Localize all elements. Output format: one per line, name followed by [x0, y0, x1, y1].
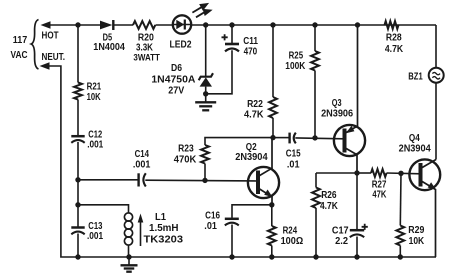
- ground below D6: [195, 102, 216, 110]
- wire C12 node to C14: [78, 179, 138, 181]
- wire LED2 to rail right: [191, 24, 436, 26]
- junction top rail / R21 node: [75, 22, 80, 27]
- resistor R20: [133, 21, 155, 29]
- Q3 base bar: [343, 129, 347, 153]
- Q3 emitter leg: [345, 25, 358, 134]
- svg-text:2N3904: 2N3904: [235, 152, 268, 163]
- Q3 collector leg: [345, 148, 358, 174]
- wire C12 to C13: [77, 142, 79, 228]
- svg-text:100K: 100K: [285, 61, 306, 72]
- junction R25 bottom: [312, 135, 317, 140]
- wire R20 to LED2: [156, 24, 174, 26]
- wire R22 to collector junction: [272, 118, 274, 138]
- svg-text:C16: C16: [205, 210, 220, 221]
- svg-text:R25: R25: [289, 50, 304, 61]
- brace for 117 VAC: [31, 20, 38, 70]
- Q2 base bar: [256, 171, 260, 195]
- Q4 collector leg: [421, 160, 437, 169]
- ground below L1: [121, 265, 138, 271]
- Q4 base bar: [419, 163, 423, 187]
- junction node to L1: [75, 202, 80, 207]
- resistor R26: [312, 188, 320, 209]
- wire R27 to Q4 base: [387, 172, 422, 175]
- transistor Q3 circle: [334, 125, 365, 156]
- junction R26 bottom rail: [313, 254, 318, 259]
- svg-text:1N4004: 1N4004: [93, 42, 125, 53]
- resistor R24: [268, 226, 276, 246]
- wire C11 to D6 node: [206, 50, 232, 94]
- svg-text:47K: 47K: [372, 189, 387, 200]
- LED LED2: [173, 15, 191, 33]
- transistor Q2 circle: [248, 167, 279, 198]
- junction top rail / R25 node: [312, 22, 317, 27]
- svg-text:C14: C14: [135, 149, 150, 160]
- wire rail corner to BZ1: [435, 25, 437, 68]
- plus sign C11: [222, 34, 228, 40]
- wire R24 to bottom rail: [271, 246, 273, 258]
- junction bottom rail left: [75, 254, 80, 259]
- svg-text:VAC: VAC: [11, 49, 28, 61]
- wire C13 to bottom rail: [77, 234, 79, 258]
- wire R23 top corner: [204, 164, 206, 181]
- svg-text:2.2: 2.2: [335, 236, 348, 247]
- svg-text:C15: C15: [286, 149, 301, 160]
- wire C14 to Q2 base: [145, 179, 258, 182]
- junction Q2 emitter node: [269, 202, 274, 207]
- svg-text:.001: .001: [87, 140, 103, 151]
- junction R24 bottom rail: [269, 254, 274, 259]
- Q2 emitter leg: [258, 188, 272, 205]
- wire node to L1: [78, 205, 129, 213]
- junction node to C14: [75, 177, 80, 182]
- junction L1 bottom rail: [126, 254, 131, 259]
- wire rail down to R21: [77, 25, 79, 83]
- svg-text:D6: D6: [171, 63, 182, 74]
- wire ground stub D6: [205, 94, 207, 102]
- Q4 emitter leg: [421, 181, 436, 258]
- wire Q3 collector to R27: [357, 172, 371, 174]
- junction top rail / C11 node: [229, 22, 234, 27]
- wire Q2 emitter to C16: [232, 205, 272, 218]
- resistor R29: [396, 226, 404, 246]
- svg-text:117: 117: [13, 34, 28, 46]
- wire R21 to C12: [77, 100, 79, 136]
- wire C17 to bottom rail: [356, 237, 358, 258]
- wire top rail HOT to D5: [49, 24, 104, 26]
- svg-text:2N3904: 2N3904: [399, 144, 432, 155]
- resistor R25: [311, 51, 319, 71]
- svg-text:TK3203: TK3203: [144, 235, 184, 246]
- capacitor C12: [71, 135, 84, 138]
- svg-text:10K: 10K: [409, 236, 425, 247]
- junction top rail / D6 node: [203, 22, 208, 27]
- wire R25 to base junction: [314, 71, 316, 138]
- svg-text:470: 470: [244, 47, 258, 58]
- Q2 collector leg: [258, 138, 272, 177]
- svg-text:2N3906: 2N3906: [321, 108, 353, 119]
- junction R23 bottom: [202, 178, 207, 183]
- wire R26 top: [316, 172, 357, 174]
- junction Q3 collector node: [354, 170, 359, 175]
- svg-text:R24: R24: [283, 225, 298, 236]
- capacitor C14: [137, 173, 139, 186]
- wire ground stub L1: [128, 257, 130, 265]
- wire C15 to Q3 base: [295, 137, 344, 140]
- capacitor C15: [288, 133, 290, 144]
- arrow NEUT terminal: [40, 62, 50, 70]
- svg-text:4.7K: 4.7K: [244, 110, 264, 121]
- wire rail to R25: [314, 25, 316, 51]
- junction C17 bottom rail: [354, 254, 359, 259]
- wire R29 to bottom rail: [399, 246, 401, 258]
- junction R29 bottom rail: [398, 254, 403, 259]
- wire collector node to C15: [273, 137, 289, 139]
- capacitor C17: [350, 229, 364, 232]
- junction D6 / C11 return: [203, 91, 208, 96]
- junction top rail / R22 node: [270, 22, 275, 27]
- resistor R21: [74, 83, 82, 100]
- wire rail to D6: [205, 25, 207, 77]
- junction C16 bottom rail: [229, 254, 234, 259]
- svg-text:Q4: Q4: [409, 133, 420, 144]
- diode D5: [100, 21, 112, 30]
- svg-text:R29: R29: [408, 225, 424, 236]
- wire D6 to ground node: [205, 87, 207, 94]
- wire C17 top: [356, 173, 358, 229]
- wire rail to C11: [231, 25, 233, 43]
- wire R23 top to collector net: [205, 138, 273, 145]
- wire C16 to bottom rail: [231, 225, 233, 258]
- wire base node to R29: [399, 173, 402, 225]
- wire rail to R22: [272, 25, 274, 97]
- svg-text:470K: 470K: [174, 154, 197, 165]
- svg-text:R28: R28: [386, 33, 402, 44]
- junction Q2 collector node: [270, 135, 275, 140]
- svg-text:Q3: Q3: [332, 98, 342, 109]
- resistor R27: [371, 169, 387, 177]
- resistor R28: [385, 21, 399, 29]
- svg-text:.001: .001: [87, 231, 103, 242]
- svg-text:1N4750A: 1N4750A: [151, 74, 195, 85]
- svg-text:BZ1: BZ1: [408, 71, 423, 82]
- svg-text:.01: .01: [204, 221, 217, 232]
- svg-text:R23: R23: [178, 144, 194, 155]
- svg-text:10K: 10K: [87, 92, 102, 103]
- junction top rail / Q3 emitter node: [355, 22, 360, 27]
- capacitor C11: [225, 43, 239, 46]
- zener diode D6: [199, 73, 213, 80]
- wire R26 to bottom rail: [315, 208, 317, 257]
- wire BZ1 to Q4 collector: [435, 83, 437, 160]
- inductor L1: [124, 213, 132, 221]
- svg-text:4.7K: 4.7K: [385, 44, 404, 55]
- svg-text:C17: C17: [332, 226, 349, 237]
- wire D5 to R20: [113, 24, 133, 26]
- svg-text:.001: .001: [133, 159, 151, 170]
- capacitor C13: [71, 226, 84, 229]
- svg-text:R26: R26: [321, 190, 337, 201]
- svg-text:.01: .01: [287, 159, 300, 170]
- arrow HOT terminal: [41, 21, 51, 29]
- resistor R23: [201, 145, 209, 164]
- svg-text:100Ω: 100Ω: [281, 236, 304, 247]
- svg-text:R22: R22: [247, 99, 263, 110]
- resistor R22: [269, 97, 277, 118]
- wire NEUT to bottom rail: [49, 66, 437, 257]
- svg-text:4.7K: 4.7K: [320, 201, 338, 212]
- capacitor C16: [225, 218, 239, 221]
- arrow tuning indicator L1: [140, 221, 142, 246]
- junction Q4 base node: [398, 171, 403, 176]
- svg-text:3WATT: 3WATT: [133, 52, 160, 63]
- svg-text:1.5mH: 1.5mH: [149, 223, 179, 234]
- svg-text:27V: 27V: [168, 86, 184, 97]
- transistor Q4 circle: [409, 159, 440, 190]
- LED2 emission arrows: [192, 4, 210, 17]
- buzzer BZ1: [429, 68, 444, 83]
- wire R26 corner down: [315, 173, 317, 188]
- svg-text:L1: L1: [155, 212, 166, 223]
- svg-text:HOT: HOT: [42, 30, 59, 41]
- wire emitter node to R24: [271, 205, 273, 226]
- svg-text:LED2: LED2: [170, 40, 192, 51]
- plus sign C17: [362, 224, 368, 230]
- svg-text:NEUT.: NEUT.: [42, 52, 66, 63]
